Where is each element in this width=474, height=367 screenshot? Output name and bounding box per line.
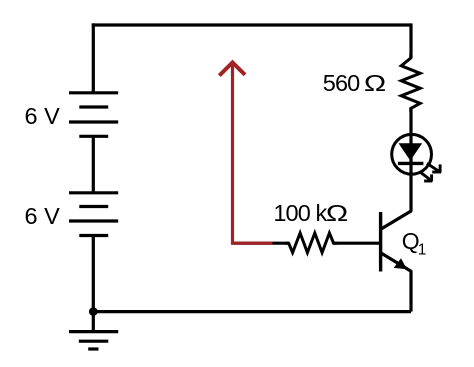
svg-text:6 V: 6 V <box>25 203 61 229</box>
resistor R1 560 ohm <box>401 54 420 112</box>
battery B2 (6 V) <box>69 193 118 236</box>
transistor Q1 <box>381 211 412 272</box>
wire ground stub <box>92 312 95 332</box>
ground <box>69 332 118 349</box>
svg-text:100 k: 100 k <box>273 200 327 226</box>
wire top rail <box>92 23 411 26</box>
node ground junction <box>89 307 98 316</box>
LED light emission arrow upper <box>427 163 441 172</box>
svg-text:6 V: 6 V <box>25 103 61 129</box>
wire resistor R1 to LED to collector <box>409 108 412 211</box>
red current arrow <box>219 62 272 243</box>
wire node to resistor R2 <box>232 242 289 245</box>
wire emitter to bottom rail <box>409 271 412 312</box>
svg-text:560: 560 <box>323 70 360 96</box>
wire battery B2 to ground node <box>92 236 95 312</box>
battery B1 (6 V) <box>69 93 118 137</box>
svg-text:Ω: Ω <box>364 70 386 96</box>
svg-text:Ω: Ω <box>326 200 348 226</box>
LED D1 <box>392 134 432 174</box>
wire between battery B1 and battery B2 <box>92 136 95 192</box>
svg-text:1: 1 <box>418 242 427 259</box>
wire left vertical (top rail to battery B1) <box>92 23 95 92</box>
wire resistor R2 to base <box>334 242 380 245</box>
LED light emission arrow lower <box>420 172 432 181</box>
wire bottom rail <box>93 310 411 313</box>
wire right vertical (top rail to resistor R1) <box>409 23 412 58</box>
resistor R2 100 kΩ <box>285 233 337 253</box>
